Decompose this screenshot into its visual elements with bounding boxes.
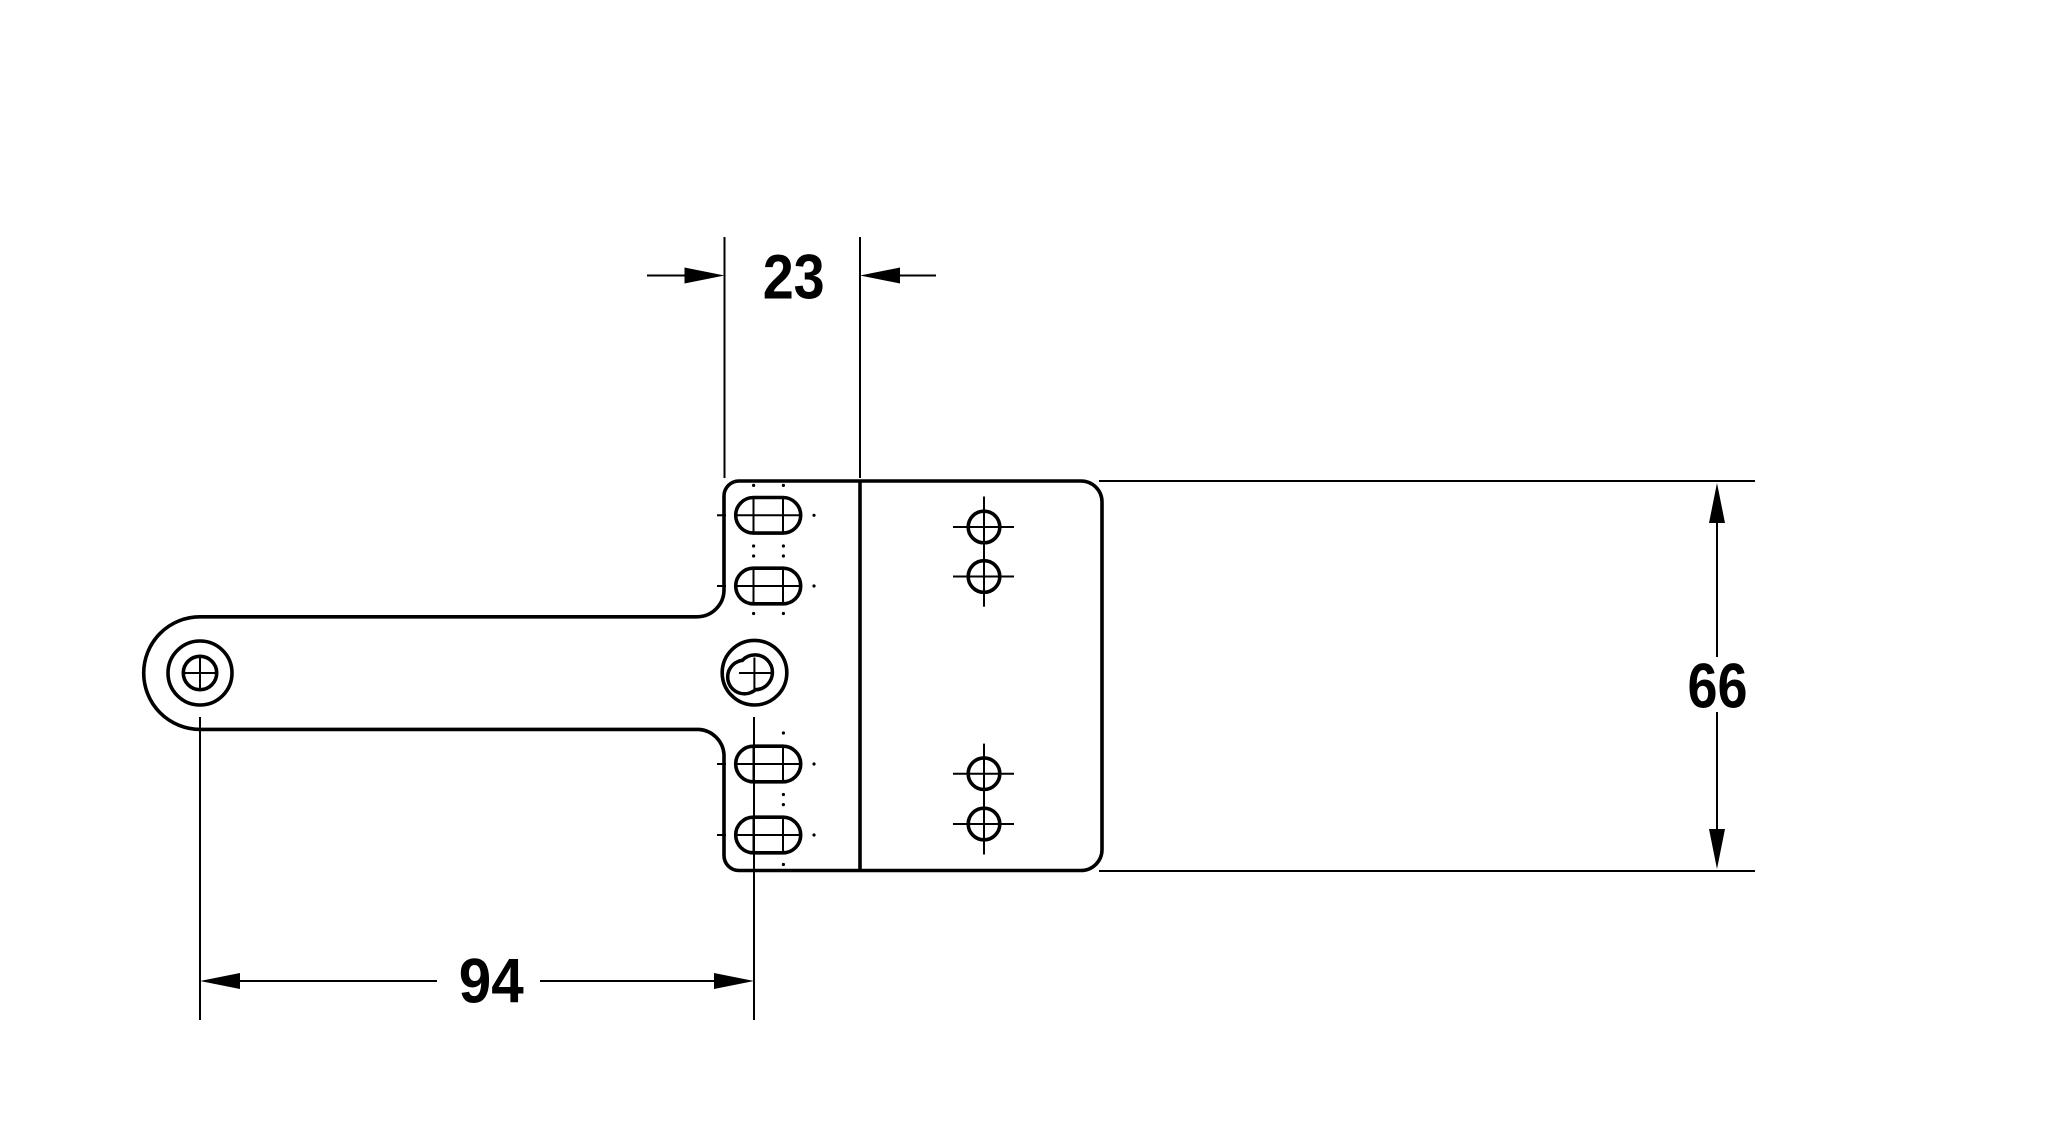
holes H3-H4 crosshairs [953,744,1014,855]
dim 66 dimension line [1716,521,1718,831]
dim 94 arrows [200,973,754,989]
part outline (bracket body with arm) [144,481,1102,871]
slot S4 centerlines [736,817,801,853]
dim 94 extension lines [200,717,754,1020]
dim 66 extension lines [1099,481,1755,871]
svg-text:23: 23 [763,243,825,313]
slot S3 centerlines [736,746,801,782]
hole H2 [968,561,1000,593]
bend line (vertical divider) [858,481,862,871]
arm hole inner circle [183,656,216,689]
slot S3 [736,746,801,782]
dim 23 arrows [685,268,901,284]
centerline dots [752,484,816,866]
arm hole boss circle [168,641,232,705]
dim 23 leader lines [647,275,936,277]
central hole (union of two circles) [728,655,773,694]
slot S2 [736,568,801,604]
svg-text:94: 94 [459,947,524,1017]
centerline left ticks [717,515,726,835]
dim 94 dimension line [238,980,716,982]
hole H4 [968,808,1000,840]
slot S4 [736,817,801,853]
arm hole crosshair [184,657,217,690]
slot S2 centerlines [736,568,801,604]
hole H1 [968,511,1000,543]
hole H3 [968,758,1000,790]
holes H1-H2 crosshairs [953,497,1014,607]
central boss circle [722,640,787,705]
slot S1 centerlines [736,498,801,534]
slot S1 [736,498,801,534]
svg-text:66: 66 [1688,652,1748,722]
dim 23 extension lines [725,237,861,478]
dim 66 arrows [1709,483,1725,869]
central hole crosshair [739,658,773,690]
